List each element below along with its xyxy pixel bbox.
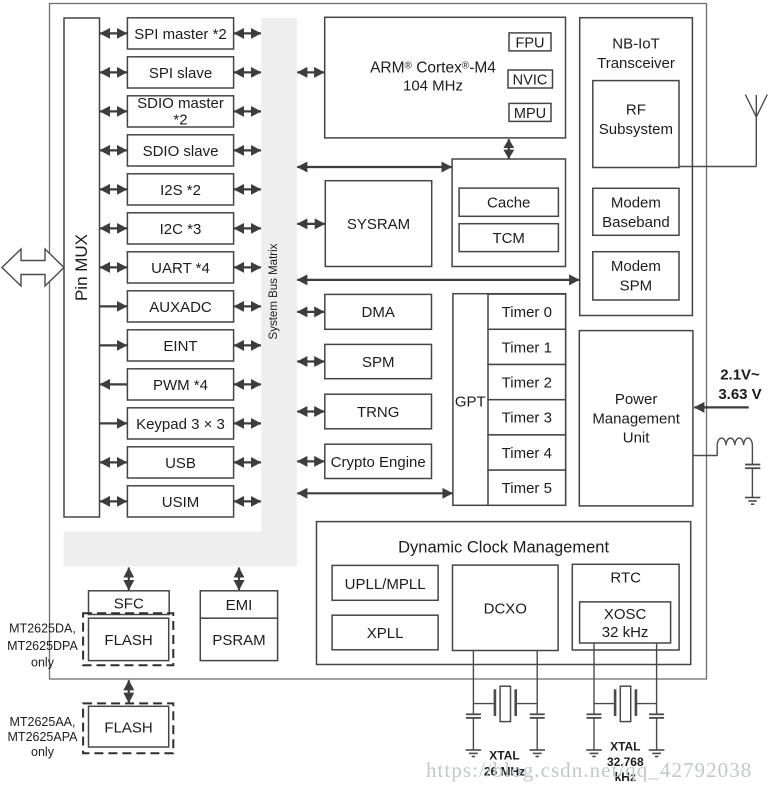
wire Pin MUX to SDIO master *2 [100, 110, 127, 112]
block Timer 2 [488, 365, 566, 400]
wire to crystal right 625.5 [656, 643, 658, 714]
wire System Bus Matrix to TRNG [297, 410, 324, 412]
wire Keypad 3 &#215; 3 to System Bus Matrix [234, 422, 261, 424]
ground right 505.3 [529, 750, 545, 757]
block PSRAM [200, 618, 277, 660]
label XTAL 26 MHz [484, 749, 525, 779]
block Timer 3 [488, 400, 566, 435]
wire System Bus Matrix to Crypto Engine [297, 460, 324, 462]
ground left 625.5 [586, 750, 602, 757]
svg-text:*2: *2 [173, 111, 187, 128]
svg-text:104 MHz: 104 MHz [403, 78, 463, 95]
wire SPI slave to System Bus Matrix [234, 71, 261, 73]
svg-text:2.1V~: 2.1V~ [720, 367, 760, 384]
block SFC [89, 591, 170, 615]
wire System Bus Matrix to NB-IoT [297, 279, 579, 281]
block Timer 1 [488, 329, 566, 364]
svg-text:MPU: MPU [514, 106, 546, 122]
block RF Subsystem [593, 81, 679, 168]
block RTC [572, 564, 679, 650]
wire USIM to System Bus Matrix [234, 500, 261, 502]
wire Pin MUX to EINT [100, 344, 127, 346]
wire Pin MUX to Keypad 3 &#215; 3 [100, 422, 127, 424]
svg-text:RTC: RTC [610, 570, 641, 587]
svg-text:Timer 4: Timer 4 [502, 445, 552, 462]
svg-text:SDIO master: SDIO master [137, 95, 224, 112]
capacitor on right wire 625.5 [649, 714, 664, 749]
block TRNG [325, 394, 432, 429]
capacitor on left wire 505.3 [466, 714, 481, 749]
svg-text:Baseband: Baseband [602, 214, 670, 231]
svg-text:UPLL/MPLL: UPLL/MPLL [345, 576, 426, 593]
block FPU [509, 33, 551, 51]
crystal at 625.5 [594, 686, 657, 721]
block NB-IoT Transceiver container [580, 18, 693, 316]
wire to crystal left 625.5 [593, 643, 595, 714]
svg-text:Power: Power [615, 391, 658, 408]
wire EINT to System Bus Matrix [234, 344, 261, 346]
svg-text:Crypto Engine: Crypto Engine [331, 454, 426, 471]
block XPLL [332, 615, 438, 650]
block Power Management Unit [579, 331, 693, 506]
wire SDIO master *2 to System Bus Matrix [234, 110, 261, 112]
svg-text:3.63 V: 3.63 V [718, 386, 761, 403]
svg-text:Timer 1: Timer 1 [502, 339, 552, 356]
wire L1 to C1 [751, 445, 753, 464]
svg-text:MT2625DA,: MT2625DA, [9, 622, 76, 636]
svg-text:EINT: EINT [163, 338, 197, 355]
capacitor on right wire 505.3 [530, 714, 545, 749]
block SPM [325, 344, 432, 378]
svg-text:FPU: FPU [516, 35, 545, 51]
svg-text:AUXADC: AUXADC [149, 299, 212, 316]
block EMI [200, 591, 277, 618]
svg-text:SPM: SPM [362, 354, 395, 371]
svg-text:MT2625AA,: MT2625AA, [9, 715, 75, 729]
optional FLASH group (MT2625DA/DPA) [83, 613, 173, 665]
wire Pin MUX to SDIO slave [100, 149, 127, 151]
wire USB to System Bus Matrix [234, 461, 261, 463]
wire UART *4 to System Bus Matrix [234, 266, 261, 268]
block MPU [509, 103, 551, 121]
wire PMU output [693, 445, 717, 456]
block Modem SPM [593, 252, 679, 300]
svg-text:TCM: TCM [492, 230, 525, 247]
svg-text:SFC: SFC [114, 595, 144, 612]
svg-text:Subsystem: Subsystem [599, 121, 673, 138]
wire to external FLASH [128, 680, 130, 703]
block USIM [127, 486, 233, 517]
ground left 505.3 [466, 750, 482, 757]
svg-text:MT2625DPA: MT2625DPA [7, 639, 78, 653]
svg-text:SYSRAM: SYSRAM [347, 216, 410, 233]
block Crypto Engine [325, 444, 432, 478]
block SPI master *2 [127, 18, 233, 49]
wire System Bus Matrix to SYSRAM [297, 223, 325, 225]
svg-text:Keypad 3 × 3: Keypad 3 × 3 [136, 416, 225, 433]
svg-text:Modem: Modem [611, 258, 661, 275]
block Timer 0 [488, 294, 566, 329]
block DMA [325, 294, 432, 329]
label MT2625DA/DPA only [7, 622, 78, 670]
block Timer 4 [488, 435, 566, 470]
svg-text:Modem: Modem [611, 195, 661, 212]
svg-text:NVIC: NVIC [513, 72, 548, 88]
block Dynamic Clock Management container [317, 522, 691, 665]
block Cache [459, 188, 558, 216]
wire System Bus Matrix to GPT [297, 492, 452, 494]
wire SDIO slave to System Bus Matrix [234, 149, 261, 151]
svg-text:DCXO: DCXO [484, 600, 527, 617]
label MT2625AA/APA only [8, 715, 79, 759]
svg-text:MT2625APA: MT2625APA [8, 730, 79, 744]
wire I2S *2 to System Bus Matrix [234, 188, 261, 190]
svg-text:System Bus Matrix: System Bus Matrix [268, 243, 280, 339]
wire Pin MUX to SPI master *2 [100, 32, 127, 34]
svg-text:XOSC: XOSC [604, 606, 647, 623]
inductor L1 [717, 438, 752, 445]
svg-text:DMA: DMA [362, 304, 395, 321]
block cache/TCM container [452, 159, 565, 267]
block TCM [459, 224, 558, 252]
svg-text:32 kHz: 32 kHz [602, 624, 649, 641]
svg-text:Timer 3: Timer 3 [502, 410, 552, 427]
svg-text:USB: USB [165, 455, 196, 472]
ground (PMU output) [745, 498, 760, 505]
wire Pin MUX to AUXADC [100, 305, 127, 307]
svg-text:only: only [31, 745, 55, 759]
wire Pin MUX to UART *4 [100, 266, 127, 268]
svg-text:XTAL: XTAL [610, 740, 640, 754]
svg-text:NB-IoT: NB-IoT [612, 36, 660, 53]
wire VIN to PMU [694, 406, 749, 408]
block SPI slave [127, 57, 233, 88]
node VIN 2.1V~3.63V [718, 367, 761, 404]
Pin MUX block [64, 18, 100, 517]
svg-text:XPLL: XPLL [367, 625, 404, 642]
svg-text:ARM® Cortex®-M4: ARM® Cortex®-M4 [370, 59, 496, 76]
svg-text:SPI master *2: SPI master *2 [134, 26, 227, 43]
wire C1 to ground [751, 468, 753, 497]
wire System Bus Matrix to cache/TCM [297, 166, 452, 168]
svg-text:Pin MUX: Pin MUX [72, 234, 91, 301]
svg-text:RF: RF [626, 102, 646, 119]
capacitor on left wire 625.5 [587, 714, 602, 749]
antenna [679, 95, 767, 167]
svg-text:Unit: Unit [623, 430, 651, 447]
wire ARM to cache/TCM [508, 139, 510, 158]
svg-text:EMI: EMI [226, 597, 253, 614]
block USB [127, 447, 233, 478]
wire System Bus Matrix to ARM [297, 71, 324, 73]
svg-text:Management: Management [592, 410, 680, 427]
svg-text:FLASH: FLASH [104, 719, 152, 736]
wire Pin MUX to I2S *2 [100, 188, 127, 190]
external FLASH group (MT2625AA/APA) [83, 703, 173, 753]
wire to crystal right 505.3 [536, 651, 538, 715]
ground right 625.5 [649, 750, 665, 757]
svg-text:TRNG: TRNG [357, 404, 400, 421]
block PWM *4 [127, 369, 233, 400]
wire to crystal left 505.3 [472, 651, 474, 715]
block Timer 5 [488, 470, 566, 505]
block I2C *3 [127, 213, 233, 244]
wire bus to SFC [128, 568, 130, 591]
block AUXADC [127, 291, 233, 322]
block GPT container [453, 294, 566, 506]
block I2S *2 [127, 174, 233, 205]
wire System Bus Matrix to DMA [297, 311, 324, 313]
external IO block arrow [2, 249, 64, 286]
chip outer frame [50, 4, 707, 680]
wire Pin MUX to PWM *4 [100, 383, 127, 385]
svg-text:Timer 2: Timer 2 [502, 375, 552, 392]
block Modem Baseband [593, 188, 679, 235]
wire bus to EMI [238, 568, 240, 591]
svg-text:SPI slave: SPI slave [149, 65, 212, 82]
crystal at 505.3 [473, 686, 537, 721]
block XOSC 32 kHz [580, 602, 671, 643]
svg-text:I2C *3: I2C *3 [160, 221, 202, 238]
block Keypad 3 &#215; 3 [127, 408, 233, 439]
svg-text:PSRAM: PSRAM [212, 632, 265, 649]
block SDIO slave [127, 135, 233, 166]
svg-text:Timer 0: Timer 0 [502, 304, 552, 321]
svg-text:GPT: GPT [455, 393, 486, 410]
svg-text:Transceiver: Transceiver [597, 55, 675, 72]
block ARM Cortex-M4 [325, 17, 566, 138]
block DCXO [453, 565, 559, 650]
svg-text:Timer 5: Timer 5 [502, 480, 552, 497]
label XTAL 32.768 kHz [607, 740, 644, 785]
System Bus Matrix bus area [64, 18, 297, 567]
capacitor C1 [745, 465, 760, 469]
svg-text:UART *4: UART *4 [151, 260, 210, 277]
wire Pin MUX to I2C *3 [100, 227, 127, 229]
block EINT [127, 330, 233, 361]
svg-text:Cache: Cache [487, 195, 530, 212]
svg-text:https://blog.csdn.net/qq_42792: https://blog.csdn.net/qq_42792038 [426, 758, 752, 782]
svg-text:FLASH: FLASH [104, 632, 152, 649]
svg-text:USIM: USIM [162, 494, 200, 511]
block NVIC [508, 70, 553, 88]
block UPLL/MPLL [332, 565, 438, 600]
svg-text:Dynamic Clock Management: Dynamic Clock Management [398, 538, 609, 556]
svg-text:SDIO slave: SDIO slave [143, 143, 219, 160]
wire System Bus Matrix to SPM [297, 360, 324, 362]
wire I2C *3 to System Bus Matrix [234, 227, 261, 229]
wire SPI master *2 to System Bus Matrix [234, 32, 261, 34]
wire Pin MUX to USIM [100, 500, 127, 502]
svg-text:SPM: SPM [620, 278, 653, 295]
wire AUXADC to System Bus Matrix [234, 305, 261, 307]
wire PWM *4 to System Bus Matrix [234, 383, 261, 385]
wire Pin MUX to SPI slave [100, 71, 127, 73]
wire Pin MUX to USB [100, 461, 127, 463]
svg-text:I2S *2: I2S *2 [160, 182, 201, 199]
block SYSRAM [325, 181, 431, 267]
block UART *4 [127, 252, 233, 283]
svg-text:PWM *4: PWM *4 [153, 377, 208, 394]
svg-text:only: only [31, 656, 55, 670]
block SDIO master *2 [127, 95, 233, 128]
